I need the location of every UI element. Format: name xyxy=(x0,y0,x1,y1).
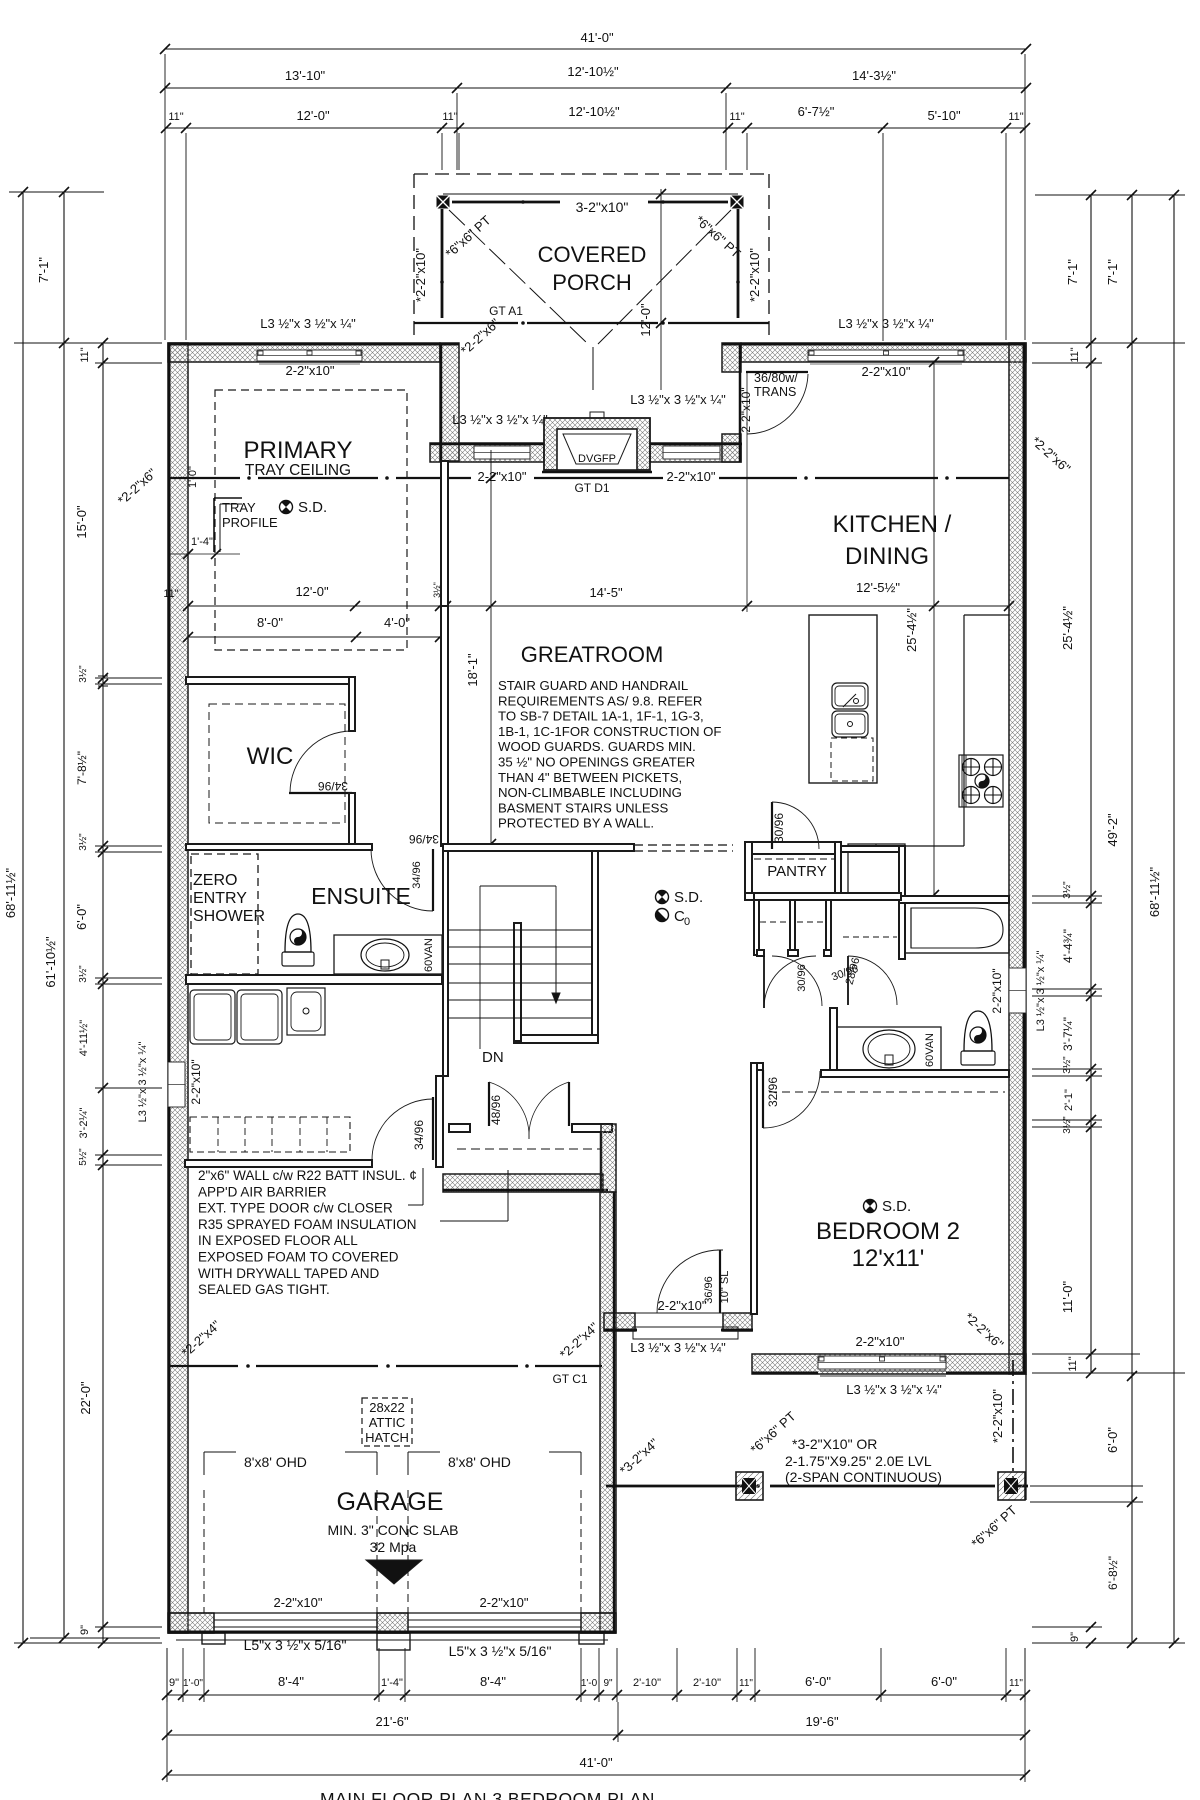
svg-text:L3 ½"x 3 ½"x ¼": L3 ½"x 3 ½"x ¼" xyxy=(137,1042,149,1123)
svg-text:S.D.: S.D. xyxy=(298,499,327,516)
porch front beam line xyxy=(443,193,738,195)
hall bottom wall stubs y955 xyxy=(757,950,764,956)
svg-text:2'-10": 2'-10" xyxy=(633,1677,661,1689)
greatroom CO detector xyxy=(656,909,669,922)
mud hall wall stub xyxy=(436,1076,443,1167)
right extension lines xyxy=(1035,194,1185,196)
svg-text:*2-2"x10": *2-2"x10" xyxy=(990,1389,1005,1443)
WIC shelf dashed xyxy=(209,704,345,823)
porch right beam vertical xyxy=(737,209,740,318)
fridge xyxy=(848,844,905,895)
svg-text:S.D.: S.D. xyxy=(674,889,703,906)
svg-text:12'-10½": 12'-10½" xyxy=(567,64,619,79)
svg-text:3½": 3½" xyxy=(78,833,89,851)
deck post left xyxy=(736,1472,763,1500)
garage bottom footing lines xyxy=(176,1639,608,1641)
svg-text:11": 11" xyxy=(79,347,91,362)
svg-text:TRAY: TRAY xyxy=(222,500,256,515)
porch post left xyxy=(437,196,450,209)
svg-text:TO SB-7 DETAIL 1A-1, 1F-1, 1G-: TO SB-7 DETAIL 1A-1, 1F-1, 1G-3, xyxy=(498,709,704,724)
svg-text:4'-11½": 4'-11½" xyxy=(78,1020,90,1056)
bedroom2 bottom exterior wall xyxy=(752,1354,1026,1374)
ensuite toilet xyxy=(282,952,314,966)
entry dashed line xyxy=(457,1148,601,1150)
svg-text:MAIN FLOOR PLAN 3 BEDROOM PLAN: MAIN FLOOR PLAN 3 BEDROOM PLAN xyxy=(320,1789,655,1800)
svg-text:1'-0: 1'-0 xyxy=(581,1678,598,1689)
svg-text:11": 11" xyxy=(1009,1678,1023,1689)
overhead door right dashed outline xyxy=(408,1451,440,1453)
svg-text:12'-0": 12'-0" xyxy=(295,584,329,599)
svg-text:L5"x 3 ½"x 5/16": L5"x 3 ½"x 5/16" xyxy=(244,1637,347,1653)
garage front pilasters xyxy=(202,1633,225,1644)
island double sink xyxy=(832,683,868,709)
svg-text:*2-2"x10": *2-2"x10" xyxy=(413,248,428,302)
bedroom2 closet dashed xyxy=(769,1091,1005,1093)
pantry walls xyxy=(745,842,841,854)
svg-text:MIN. 3" CONC SLAB: MIN. 3" CONC SLAB xyxy=(328,1522,459,1538)
svg-text:25'-4½": 25'-4½" xyxy=(904,608,919,652)
svg-text:3'-2¼": 3'-2¼" xyxy=(78,1107,90,1138)
front wall of greatroom (behind porch) xyxy=(430,443,544,462)
svg-text:ENTRY: ENTRY xyxy=(193,890,247,907)
svg-text:1'-4": 1'-4" xyxy=(191,536,213,548)
svg-text:5'-10": 5'-10" xyxy=(927,108,961,123)
vertical dim 25'-4 1/2 kitchen xyxy=(933,362,935,895)
mud door 34/96 to garage xyxy=(432,1097,434,1160)
tray ceiling dashed rectangle xyxy=(215,390,407,650)
closet double door 48/96 xyxy=(488,1082,490,1126)
svg-text:2-2"x10": 2-2"x10" xyxy=(274,1595,323,1610)
bath toilet xyxy=(961,1051,995,1065)
svg-text:ATTIC: ATTIC xyxy=(369,1415,406,1430)
svg-text:PANTRY: PANTRY xyxy=(767,863,826,880)
svg-text:11": 11" xyxy=(1069,347,1081,362)
svg-text:28x22: 28x22 xyxy=(369,1400,404,1415)
svg-text:SHOWER: SHOWER xyxy=(193,908,265,925)
svg-text:34/96: 34/96 xyxy=(412,1120,426,1150)
svg-text:36/80w/: 36/80w/ xyxy=(754,371,798,385)
window in right wall (bath) xyxy=(1009,968,1026,1013)
svg-text:21'-6": 21'-6" xyxy=(375,1714,409,1729)
stair landing outline xyxy=(479,886,481,1049)
svg-text:2'-10": 2'-10" xyxy=(693,1677,721,1689)
left exterior wall xyxy=(168,343,188,1633)
bath vanity xyxy=(837,1027,941,1071)
svg-text:GT A1: GT A1 xyxy=(489,304,523,318)
svg-text:PROFILE: PROFILE xyxy=(222,515,278,530)
svg-text:8'-0": 8'-0" xyxy=(257,615,283,630)
svg-text:5½": 5½" xyxy=(78,1148,89,1166)
svg-text:60VAN: 60VAN xyxy=(423,938,435,972)
svg-text:BEDROOM 2: BEDROOM 2 xyxy=(816,1218,960,1245)
svg-text:4'-0": 4'-0" xyxy=(384,615,410,630)
svg-text:L3 ½"x 3 ½"x ¼": L3 ½"x 3 ½"x ¼" xyxy=(846,1382,942,1397)
svg-text:2-2"x10": 2-2"x10" xyxy=(862,364,911,379)
bedroom2 left wall xyxy=(751,1063,757,1314)
porch left beam vertical xyxy=(441,209,444,318)
svg-text:9": 9" xyxy=(79,1625,91,1635)
svg-text:18'-1": 18'-1" xyxy=(465,653,480,687)
WIC top wall xyxy=(186,677,349,684)
note leader lines xyxy=(408,1204,423,1206)
bedroom2 door 32/96 xyxy=(762,1070,764,1128)
island dishwasher dashed xyxy=(831,738,873,781)
svg-text:11": 11" xyxy=(163,588,178,600)
svg-text:30/96: 30/96 xyxy=(772,813,786,843)
left dimension line 68'-11 1/2" xyxy=(22,192,24,1643)
stair right rail wall xyxy=(592,851,598,1043)
svg-text:19'-6": 19'-6" xyxy=(805,1714,839,1729)
girder truss GT D1 line xyxy=(168,477,240,479)
svg-text:34/96: 34/96 xyxy=(318,779,348,793)
svg-text:STAIR GUARD AND HANDRAIL: STAIR GUARD AND HANDRAIL xyxy=(498,678,688,693)
svg-text:35 ½" NO OPENINGS GREATER: 35 ½" NO OPENINGS GREATER xyxy=(498,755,695,770)
porch right wall xyxy=(722,343,741,372)
svg-text:DN: DN xyxy=(482,1049,504,1066)
stair hall top wall xyxy=(443,844,634,851)
ensuite vanity xyxy=(334,935,442,974)
overhead door left dashed outline xyxy=(204,1451,236,1453)
closet door arcs xyxy=(764,956,816,1008)
svg-text:12'-0": 12'-0" xyxy=(296,108,330,123)
svg-text:2-2"x10": 2-2"x10" xyxy=(739,387,753,432)
stair center rail xyxy=(514,923,521,1041)
svg-text:8'-4": 8'-4" xyxy=(480,1674,506,1689)
svg-text:NON-CLIMBABLE INCLUDING: NON-CLIMBABLE INCLUDING xyxy=(498,785,682,800)
svg-text:25'-4½": 25'-4½" xyxy=(1060,606,1075,650)
top extension lines xyxy=(164,54,166,340)
svg-text:22'-0": 22'-0" xyxy=(78,1381,93,1415)
svg-text:3½": 3½" xyxy=(1062,1116,1073,1134)
svg-text:EXPOSED FOAM TO COVERED: EXPOSED FOAM TO COVERED xyxy=(198,1250,399,1265)
svg-text:2-2"x10": 2-2"x10" xyxy=(286,363,335,378)
svg-text:L3 ½"x 3 ½"x ¼": L3 ½"x 3 ½"x ¼" xyxy=(1035,951,1047,1032)
stair treads xyxy=(448,929,592,931)
svg-text:2'-1": 2'-1" xyxy=(1063,1089,1075,1111)
mud sink xyxy=(287,988,325,1035)
right exterior wall xyxy=(1009,343,1026,1374)
svg-text:TRANS: TRANS xyxy=(754,385,796,399)
porch post right xyxy=(731,196,744,209)
closet dashed shelves xyxy=(760,921,788,923)
svg-text:15'-0": 15'-0" xyxy=(74,505,89,539)
bathtub xyxy=(905,903,1009,953)
ensuite entry door 34/96 xyxy=(432,849,434,911)
svg-text:THAN 4" BETWEEN PICKETS,: THAN 4" BETWEEN PICKETS, xyxy=(498,770,682,785)
svg-text:S.D.: S.D. xyxy=(882,1198,911,1215)
svg-text:12'-0": 12'-0" xyxy=(638,303,653,337)
svg-text:L3 ½"x 3 ½"x ¼": L3 ½"x 3 ½"x ¼" xyxy=(630,392,726,407)
right dimension chain line xyxy=(1090,195,1092,1373)
wall between primary side and greatroom xyxy=(441,461,448,606)
left dimension line 61'-10 1/2" / 7'-1" xyxy=(63,192,65,1638)
svg-text:6'-0": 6'-0" xyxy=(931,1674,957,1689)
svg-text:L3 ½"x 3 ½"x ¼": L3 ½"x 3 ½"x ¼" xyxy=(838,316,934,331)
porch dimension line 12'-0" xyxy=(660,189,662,390)
svg-text:PORCH: PORCH xyxy=(552,270,631,295)
svg-text:9": 9" xyxy=(1069,1632,1081,1642)
svg-text:3½": 3½" xyxy=(78,965,89,983)
interior dimension line 8'-0 / 4'-0 xyxy=(188,636,440,638)
svg-text:ZERO: ZERO xyxy=(193,872,237,889)
svg-text:L3 ½"x 3 ½"x ¼": L3 ½"x 3 ½"x ¼" xyxy=(260,316,356,331)
pantry door opening 30/96 xyxy=(770,843,819,853)
svg-text:2-2"x10": 2-2"x10" xyxy=(658,1298,707,1313)
heavy exterior outline xyxy=(168,343,171,1062)
svg-text:1'-0": 1'-0" xyxy=(187,466,199,488)
svg-text:11": 11" xyxy=(442,111,457,123)
extension from porch walls down xyxy=(441,461,443,612)
range/stove xyxy=(959,755,1003,807)
svg-text:(2-SPAN CONTINUOUS): (2-SPAN CONTINUOUS) xyxy=(785,1469,942,1485)
top dimension row 3 xyxy=(165,127,1026,129)
svg-text:GARAGE: GARAGE xyxy=(337,1488,444,1516)
girder truss GT A1 line xyxy=(414,322,518,324)
svg-text:7'-1": 7'-1" xyxy=(1065,259,1080,285)
svg-text:IN EXPOSED FLOOR ALL: IN EXPOSED FLOOR ALL xyxy=(198,1233,358,1248)
svg-text:68'-11½": 68'-11½" xyxy=(3,868,18,919)
svg-text:61'-10½": 61'-10½" xyxy=(43,936,58,988)
garage door sills xyxy=(214,1619,377,1621)
right dimension line 68'-11 1/2" xyxy=(1173,195,1175,1643)
rear door threshold xyxy=(635,1313,723,1327)
svg-text:7'-1": 7'-1" xyxy=(1105,259,1120,285)
deck beam dashdot right xyxy=(1012,1360,1014,1484)
bottom extension lines xyxy=(166,1648,168,1702)
svg-text:8'x8' OHD: 8'x8' OHD xyxy=(448,1454,511,1470)
bath top wall xyxy=(899,896,1009,903)
bath door arc xyxy=(848,956,897,1005)
left extension lines xyxy=(9,191,104,193)
fireplace DVGFP xyxy=(544,418,650,470)
svg-text:8'x8' OHD: 8'x8' OHD xyxy=(244,1454,307,1470)
svg-text:9": 9" xyxy=(603,1678,613,1689)
svg-text:12'x11': 12'x11' xyxy=(852,1245,925,1272)
greatroom smoke detector xyxy=(656,891,669,904)
svg-text:1'-4": 1'-4" xyxy=(381,1677,403,1689)
svg-text:TRAY CEILING: TRAY CEILING xyxy=(245,462,351,479)
garage bottom wall xyxy=(168,1613,214,1633)
smoke detector primary xyxy=(280,501,293,514)
svg-text:0: 0 xyxy=(684,916,690,928)
svg-text:1'-0": 1'-0" xyxy=(183,1678,203,1689)
top wall right wing xyxy=(741,343,1026,362)
ensuite top wall xyxy=(186,844,372,850)
svg-text:11": 11" xyxy=(1008,111,1023,123)
svg-text:11": 11" xyxy=(729,111,744,123)
porch left wall xyxy=(440,343,459,461)
WIC right wall stub lower xyxy=(349,793,355,844)
svg-text:48/96: 48/96 xyxy=(489,1095,503,1125)
svg-text:34/96: 34/96 xyxy=(411,861,423,889)
attic hatch xyxy=(362,1398,412,1446)
svg-text:11": 11" xyxy=(168,111,183,123)
svg-text:GREATROOM: GREATROOM xyxy=(521,642,664,667)
vertical dim 18'-1 xyxy=(490,450,492,844)
bath bottom / bedroom top wall xyxy=(821,1070,1009,1077)
closet block right of pantry xyxy=(841,846,905,852)
svg-text:WIC: WIC xyxy=(247,743,294,770)
porch diagonal braces xyxy=(449,210,588,344)
right dimension line 49'-2" xyxy=(1131,195,1133,1643)
svg-text:KITCHEN /: KITCHEN / xyxy=(833,511,952,538)
svg-text:6'-8½": 6'-8½" xyxy=(1106,1556,1120,1590)
WIC right wall stub upper xyxy=(349,677,355,731)
svg-text:11'-0": 11'-0" xyxy=(1060,1281,1075,1314)
svg-text:2-1.75"X9.25" 2.0E LVL: 2-1.75"X9.25" 2.0E LVL xyxy=(785,1453,932,1469)
kitchen island xyxy=(809,615,877,783)
svg-text:R35 SPRAYED FOAM INSULATION: R35 SPRAYED FOAM INSULATION xyxy=(198,1217,417,1232)
svg-text:32 Mpa: 32 Mpa xyxy=(370,1539,417,1555)
porch roof dashed outline xyxy=(414,173,769,175)
interior dimension line y=606 xyxy=(188,605,1009,607)
svg-text:11": 11" xyxy=(739,1678,753,1689)
svg-text:6'-0": 6'-0" xyxy=(1105,1427,1120,1453)
svg-text:DINING: DINING xyxy=(845,543,929,570)
WIC door 34/96 xyxy=(289,792,352,794)
garage right wall xyxy=(600,1192,616,1633)
stair left wall xyxy=(443,851,448,1076)
svg-text:13'-10": 13'-10" xyxy=(285,68,326,83)
svg-text:2-2"x10": 2-2"x10" xyxy=(189,1059,203,1104)
svg-text:41'-0": 41'-0" xyxy=(580,30,614,45)
svg-text:3-2"x10": 3-2"x10" xyxy=(576,199,629,215)
window W1 in top-left wall xyxy=(257,350,362,361)
svg-text:12'-5½": 12'-5½" xyxy=(856,580,900,595)
kitchen counter right xyxy=(964,614,1009,616)
front entry door 36/80 w TRANS xyxy=(746,371,808,373)
deck post right xyxy=(998,1472,1025,1500)
svg-text:PROTECTED BY A WALL.: PROTECTED BY A WALL. xyxy=(498,816,654,831)
bottom dimension row 1 xyxy=(167,1694,1025,1696)
svg-text:L3 ½"x 3 ½"x ¼": L3 ½"x 3 ½"x ¼" xyxy=(630,1340,726,1355)
svg-text:L5"x 3 ½"x 5/16": L5"x 3 ½"x 5/16" xyxy=(449,1643,552,1659)
rear wall at corridor xyxy=(604,1313,635,1331)
svg-text:WOOD GUARDS. GUARDS MIN.: WOOD GUARDS. GUARDS MIN. xyxy=(498,739,696,754)
mud bench dashed xyxy=(190,1117,350,1152)
svg-text:41'-0": 41'-0" xyxy=(579,1755,613,1770)
svg-text:2-2"x10": 2-2"x10" xyxy=(480,1595,529,1610)
left dimension chain line xyxy=(102,343,104,1643)
pantry shelf dashed xyxy=(754,858,835,860)
svg-text:6'-0": 6'-0" xyxy=(805,1674,831,1689)
svg-text:30/96: 30/96 xyxy=(796,964,808,992)
svg-text:10" SL: 10" SL xyxy=(719,1271,731,1304)
svg-text:REQUIREMENTS AS/ 9.8. REFER: REQUIREMENTS AS/ 9.8. REFER xyxy=(498,693,702,708)
svg-text:4'-4¾": 4'-4¾" xyxy=(1061,929,1075,963)
garage/house common wall xyxy=(443,1174,603,1192)
svg-text:DVGFP: DVGFP xyxy=(578,453,616,465)
girder truss GT C1 line xyxy=(168,1365,238,1367)
svg-text:3½": 3½" xyxy=(1062,1056,1073,1074)
svg-text:9": 9" xyxy=(169,1677,179,1689)
entry top walls xyxy=(449,1124,470,1132)
svg-text:COVERED: COVERED xyxy=(538,242,647,267)
svg-text:PRIMARY: PRIMARY xyxy=(244,437,353,464)
svg-text:3'-7¼": 3'-7¼" xyxy=(1061,1017,1075,1051)
rear door 36/96 + 10 SL xyxy=(717,1249,723,1251)
svg-text:GT C1: GT C1 xyxy=(552,1372,587,1386)
mud bottom wall xyxy=(185,1160,372,1167)
svg-text:APP'D AIR BARRIER: APP'D AIR BARRIER xyxy=(198,1184,327,1199)
svg-text:L3 ½"x 3 ½"x ¼": L3 ½"x 3 ½"x ¼" xyxy=(452,412,548,427)
svg-text:68'-11½": 68'-11½" xyxy=(1147,867,1162,918)
svg-text:BASMENT STAIRS UNLESS: BASMENT STAIRS UNLESS xyxy=(498,800,668,815)
stair bottom rail xyxy=(514,1035,598,1043)
svg-text:8'-4": 8'-4" xyxy=(278,1674,304,1689)
svg-text:2-2"x10": 2-2"x10" xyxy=(990,968,1004,1013)
svg-text:*2-2"x10": *2-2"x10" xyxy=(747,248,762,302)
svg-text:*3-2"X10" OR: *3-2"X10" OR xyxy=(792,1436,877,1452)
bedroom2 smoke detector xyxy=(864,1200,877,1213)
hall top wall / flush beam dashed xyxy=(634,844,733,846)
svg-text:HATCH: HATCH xyxy=(365,1430,409,1445)
garage slope arrow xyxy=(366,1560,422,1584)
svg-text:2"x6" WALL c/w R22 BATT INSUL.: 2"x6" WALL c/w R22 BATT INSUL. ¢ xyxy=(198,1168,417,1183)
window in kitchen top wall xyxy=(808,350,964,361)
deck beam line xyxy=(606,1485,745,1488)
svg-text:7'-1": 7'-1" xyxy=(36,257,51,283)
deck right edge xyxy=(1025,1374,1027,1500)
svg-text:EXT. TYPE DOOR c/w CLOSER: EXT. TYPE DOOR c/w CLOSER xyxy=(198,1201,393,1216)
svg-text:3½": 3½" xyxy=(78,665,89,683)
svg-text:34/96: 34/96 xyxy=(409,832,439,846)
linen closets walls xyxy=(754,893,901,900)
svg-text:GT D1: GT D1 xyxy=(574,481,609,495)
top dimension row 2 xyxy=(165,87,1026,89)
zero entry shower dashed xyxy=(191,854,258,974)
svg-text:11": 11" xyxy=(1067,1356,1079,1371)
svg-text:6'-0": 6'-0" xyxy=(74,904,89,930)
svg-text:14'-5": 14'-5" xyxy=(589,585,623,600)
top dimension row 1: 41'-0" xyxy=(165,48,1026,50)
porch beam 3-2x10 top xyxy=(452,201,560,204)
top wall left wing xyxy=(168,343,440,362)
tray profile detail xyxy=(213,498,215,552)
window in left wall (mudroom) xyxy=(168,1062,185,1107)
svg-text:2-2"x10": 2-2"x10" xyxy=(667,469,716,484)
svg-text:6'-7½": 6'-7½" xyxy=(798,104,835,119)
bottom dimension row 3 xyxy=(167,1774,1025,1776)
bottom dimension row 2 xyxy=(167,1734,1025,1736)
stair down arrow xyxy=(555,900,557,993)
corridor left wall xyxy=(601,1124,616,1192)
bath left wall xyxy=(830,1008,837,1077)
svg-text:ENSUITE: ENSUITE xyxy=(311,883,411,909)
svg-text:14'-3½": 14'-3½" xyxy=(852,68,896,83)
washer dryer xyxy=(190,990,235,1044)
svg-text:2-2"x10": 2-2"x10" xyxy=(478,469,527,484)
svg-text:2-2"x10": 2-2"x10" xyxy=(856,1334,905,1349)
svg-text:49'-2": 49'-2" xyxy=(1105,813,1120,847)
svg-text:SEALED GAS TIGHT.: SEALED GAS TIGHT. xyxy=(198,1282,330,1297)
svg-text:12'-10½": 12'-10½" xyxy=(568,104,620,119)
svg-text:WITH DRYWALL TAPED AND: WITH DRYWALL TAPED AND xyxy=(198,1266,380,1281)
svg-text:1B-1, 1C-1FOR CONSTRUCTION OF: 1B-1, 1C-1FOR CONSTRUCTION OF xyxy=(498,724,721,739)
svg-text:60VAN: 60VAN xyxy=(924,1033,936,1067)
ensuite bottom wall xyxy=(186,975,442,984)
svg-text:7'-8½": 7'-8½" xyxy=(75,751,89,785)
